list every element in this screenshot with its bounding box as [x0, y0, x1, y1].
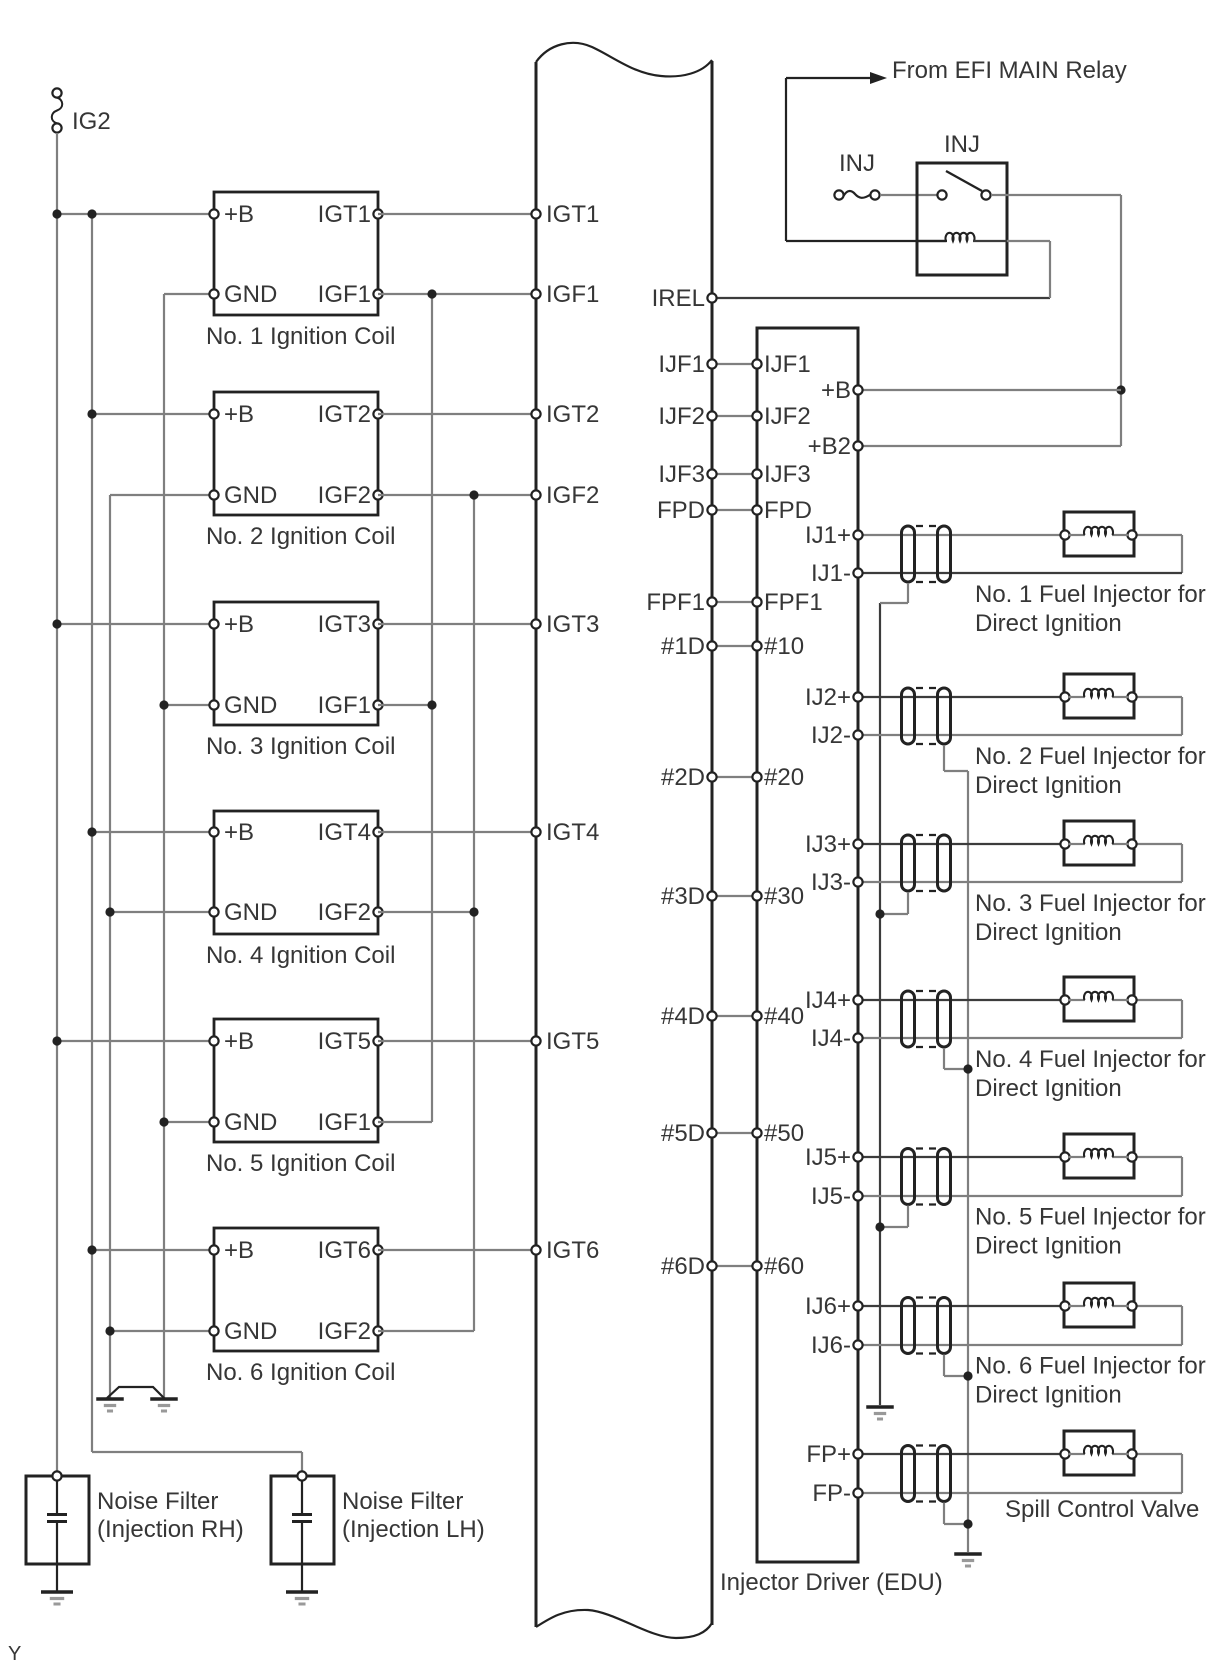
svg-text:IGF2: IGF2: [318, 899, 371, 926]
svg-text:IJ3+: IJ3+: [805, 831, 851, 858]
svg-text:Direct Ignition: Direct Ignition: [975, 1382, 1122, 1409]
wire IJ6- return: [858, 1306, 1182, 1345]
pin IJ6+ EDU: [805, 1293, 863, 1320]
pin GND coil 2: [209, 482, 277, 509]
junction +B coil6 row: [87, 1245, 96, 1254]
pin FPF1 ECM: [646, 589, 716, 616]
wire IG2 vertical bus x=57: [56, 133, 58, 1476]
wire shield drain injector 3: [880, 892, 908, 914]
pin #1D ECM: [661, 633, 717, 660]
wire IJ6+ EDU to load: [858, 1305, 1065, 1307]
label No. 5 Fuel Injector for: [975, 1204, 1206, 1260]
junction IG2/+B node coil1 row: [52, 209, 96, 218]
wire relay switch to +B feed: [991, 195, 1121, 446]
pin IGT2 coil 2: [318, 401, 383, 428]
wire GND from No. 3 Ignition Coil: [164, 704, 214, 706]
pin #3D ECM: [661, 883, 717, 910]
wire FP+ EDU to load: [858, 1453, 1065, 1455]
svg-text:#4D: #4D: [661, 1003, 705, 1030]
svg-text:INJ: INJ: [839, 150, 875, 177]
ignition coil box No. 3 Ignition Coil: [214, 602, 378, 725]
junction shield drain injector 4: [963, 1064, 972, 1073]
pin +B EDU: [821, 377, 863, 404]
svg-text:IJF3: IJF3: [658, 461, 705, 488]
wire +B feed to No. 2 Ignition Coil: [92, 413, 214, 415]
wire shield drain injector 7: [944, 1503, 968, 1525]
pin GND coil 6: [209, 1318, 277, 1345]
wire IGT6 coil to ECM: [378, 1249, 536, 1251]
pin #5D ECM: [661, 1120, 717, 1147]
wire IJ1- return: [858, 535, 1182, 573]
noise filter (Injection RH): [26, 1471, 89, 1591]
svg-text:IJF2: IJF2: [658, 403, 705, 430]
svg-text:INJ: INJ: [944, 131, 980, 158]
pin IGF2 coil 2: [318, 482, 383, 509]
wire #2D ECM to EDU: [712, 776, 757, 778]
wire IGF2 coil6 stub: [378, 1330, 474, 1332]
pin IGT6 coil 6: [318, 1237, 383, 1264]
wire #4D ECM to EDU: [712, 1015, 757, 1017]
svg-text:+B: +B: [224, 611, 254, 638]
wire fuse to relay switch: [880, 194, 937, 196]
wire IJ2- return: [858, 697, 1182, 735]
shielded cable injector 4: [902, 991, 951, 1047]
svg-text:FPD: FPD: [764, 497, 812, 524]
svg-text:IGT5: IGT5: [318, 1028, 371, 1055]
svg-text:#5D: #5D: [661, 1120, 705, 1147]
shielded cable injector 7: [902, 1446, 951, 1502]
pin #6D ECM: [661, 1253, 717, 1280]
svg-text:#3D: #3D: [661, 883, 705, 910]
svg-text:IJF1: IJF1: [658, 351, 705, 378]
svg-text:IJ5+: IJ5+: [805, 1144, 851, 1171]
svg-text:(Injection LH): (Injection LH): [342, 1516, 485, 1543]
svg-text:Direct Ignition: Direct Ignition: [975, 1233, 1122, 1260]
svg-text:IGF1: IGF1: [318, 692, 371, 719]
svg-text:No. 4 Ignition Coil: No. 4 Ignition Coil: [206, 942, 395, 969]
wire IGF2 coil4 stub: [378, 911, 474, 913]
wire shield drain injector 6: [944, 1355, 968, 1377]
junction GND coil4 row: [105, 907, 114, 916]
svg-text:No. 3 Ignition Coil: No. 3 Ignition Coil: [206, 733, 395, 760]
junction GND coil5 row: [159, 1117, 168, 1126]
pin IGT1 ECM: [531, 201, 599, 228]
pin IJ2+ EDU: [805, 684, 863, 711]
pin IJ3- EDU: [811, 869, 863, 896]
wire From EFI MAIN Relay feed: [786, 72, 946, 241]
wire +B feed to No. 4 Ignition Coil: [92, 831, 214, 833]
wire +B2 EDU: [858, 445, 1121, 447]
svg-text:IJ6+: IJ6+: [805, 1293, 851, 1320]
wire IGT4 coil to ECM: [378, 831, 536, 833]
junction +B coil4 row: [87, 827, 96, 836]
svg-text:No. 2 Fuel Injector for: No. 2 Fuel Injector for: [975, 743, 1206, 770]
wire +B feed to No. 1 Ignition Coil: [57, 213, 214, 215]
wire IJ5- return: [858, 1157, 1182, 1196]
pin IJF1 EDU: [752, 351, 810, 378]
svg-text:GND: GND: [224, 692, 277, 719]
junction shield drain injector 5: [875, 1222, 884, 1231]
wire IJF3 ECM to EDU: [712, 473, 757, 475]
pin IGT5 coil 5: [318, 1028, 383, 1055]
svg-text:IJ4-: IJ4-: [811, 1025, 851, 1052]
svg-text:IJ2+: IJ2+: [805, 684, 851, 711]
svg-text:IGF1: IGF1: [546, 281, 599, 308]
ground noise filter LH: [286, 1592, 318, 1604]
wire #5D ECM to EDU: [712, 1132, 757, 1134]
shielded cable injector 3: [902, 835, 951, 891]
svg-text:IJF1: IJF1: [764, 351, 811, 378]
ECM connector bus: [536, 43, 712, 1638]
svg-text:IJ2-: IJ2-: [811, 722, 851, 749]
relay switch contacts: [937, 171, 990, 200]
svg-text:Direct Ignition: Direct Ignition: [975, 919, 1122, 946]
shielded cable injector 1: [902, 526, 951, 582]
wire GND from No. 2 Ignition Coil: [110, 494, 214, 496]
svg-text:FP+: FP+: [806, 1441, 851, 1468]
pin IJ4- EDU: [811, 1025, 863, 1052]
pin #40 EDU: [752, 1003, 804, 1030]
wire IJ2+ EDU to load: [858, 696, 1065, 698]
svg-text:+B: +B: [224, 1028, 254, 1055]
label No. 2 Fuel Injector for: [975, 743, 1206, 799]
svg-text:IGT3: IGT3: [318, 611, 371, 638]
svg-text:From EFI MAIN Relay: From EFI MAIN Relay: [892, 57, 1127, 84]
wire ground bridge: [107, 1387, 164, 1398]
wire shield drain injector 4: [944, 1048, 968, 1069]
svg-text:FPF1: FPF1: [646, 589, 705, 616]
label No. 6 Fuel Injector for: [975, 1353, 1206, 1409]
wire shield drain injector 1: [880, 583, 908, 603]
wire IREL ECM to relay coil: [712, 241, 1050, 298]
injector driver EDU box: [757, 328, 858, 1562]
svg-text:IGF1: IGF1: [318, 281, 371, 308]
pin FPD ECM: [657, 497, 717, 524]
pin IGT4 coil 4: [318, 819, 383, 846]
svg-text:#60: #60: [764, 1253, 804, 1280]
svg-text:IGT2: IGT2: [318, 401, 371, 428]
pin GND coil 1: [209, 281, 277, 308]
pin IJF3 ECM: [658, 461, 716, 488]
ignition coil box No. 6 Ignition Coil: [214, 1228, 378, 1351]
label No. 3 Ignition Coil: [206, 733, 395, 760]
shielded cable injector 5: [902, 1149, 951, 1205]
wire +B vertical bus x=92: [92, 214, 302, 1476]
pin GND coil 3: [209, 692, 277, 719]
wire FPD ECM to EDU: [712, 509, 757, 511]
ground noise filter RH: [41, 1592, 73, 1604]
wire IGT5 coil to ECM: [378, 1040, 536, 1042]
wire GND vertical bus x=164 (coils 1,3,5): [163, 294, 165, 1398]
svg-text:+B: +B: [821, 377, 851, 404]
svg-text:Injector Driver (EDU): Injector Driver (EDU): [720, 1569, 943, 1596]
label From EFI MAIN Relay: [892, 57, 1127, 84]
ground shield drain bus x=968: [954, 1554, 982, 1566]
pin #30 EDU: [752, 883, 804, 910]
wire GND vertical bus x=110 (coils 2,4,6): [109, 495, 111, 1398]
pin #50 EDU: [752, 1120, 804, 1147]
label No. 4 Fuel Injector for: [975, 1046, 1206, 1102]
wire +B EDU: [858, 389, 1121, 391]
svg-text:No. 5 Ignition Coil: No. 5 Ignition Coil: [206, 1150, 395, 1177]
svg-text:Direct Ignition: Direct Ignition: [975, 1075, 1122, 1102]
pin IJ6- EDU: [811, 1332, 863, 1359]
svg-text:GND: GND: [224, 899, 277, 926]
pin IGT1 coil 1: [318, 201, 383, 228]
ignition coil box No. 2 Ignition Coil: [214, 392, 378, 515]
label Noise Filter (Injection RH): [97, 1488, 244, 1543]
pin IGF1 coil 1: [318, 281, 383, 308]
svg-text:Direct Ignition: Direct Ignition: [975, 610, 1122, 637]
svg-text:IJF3: IJF3: [764, 461, 811, 488]
pin FPD EDU: [752, 497, 812, 524]
svg-text:+B: +B: [224, 1237, 254, 1264]
wire +B feed to No. 5 Ignition Coil: [57, 1040, 214, 1042]
svg-text:FPF1: FPF1: [764, 589, 823, 616]
wire #3D ECM to EDU: [712, 895, 757, 897]
svg-text:#30: #30: [764, 883, 804, 910]
svg-text:IG2: IG2: [72, 108, 111, 135]
fuse INJ: [834, 190, 879, 199]
svg-text:No. 6 Fuel Injector for: No. 6 Fuel Injector for: [975, 1353, 1206, 1380]
svg-text:IJ3-: IJ3-: [811, 869, 851, 896]
pin IJ3+ EDU: [805, 831, 863, 858]
relay coil: [917, 233, 1050, 241]
shielded cable injector 6: [902, 1298, 951, 1354]
wire +B feed to No. 6 Ignition Coil: [92, 1249, 214, 1251]
pin +B coil 2: [209, 401, 254, 428]
svg-text:#10: #10: [764, 633, 804, 660]
svg-text:IGF2: IGF2: [546, 482, 599, 509]
junction IGF1 node coil3: [427, 700, 436, 709]
wire IGT1 coil to ECM: [378, 213, 536, 215]
label No. 6 Ignition Coil: [206, 1359, 395, 1386]
wire #1D ECM to EDU: [712, 645, 757, 647]
svg-text:IJ6-: IJ6-: [811, 1332, 851, 1359]
ground coils LH bank: [96, 1399, 124, 1411]
pin IJF1 ECM: [658, 351, 716, 378]
pin IGT4 ECM: [531, 819, 599, 846]
svg-text:#50: #50: [764, 1120, 804, 1147]
svg-text:IJ4+: IJ4+: [805, 987, 851, 1014]
wire IJF1 ECM to EDU: [712, 363, 757, 365]
ground coils RH bank: [150, 1399, 178, 1411]
svg-text:Spill Control Valve: Spill Control Valve: [1005, 1496, 1199, 1523]
ignition coil box No. 5 Ignition Coil: [214, 1019, 378, 1142]
junction IGF1 node coil1: [427, 289, 436, 298]
svg-text:GND: GND: [224, 482, 277, 509]
wire #6D ECM to EDU: [712, 1265, 757, 1267]
pin IJF3 EDU: [752, 461, 810, 488]
fuel injector 6 box: [1060, 1283, 1136, 1327]
svg-text:+B: +B: [224, 201, 254, 228]
wire IGT3 coil to ECM: [378, 623, 536, 625]
svg-text:Direct Ignition: Direct Ignition: [975, 772, 1122, 799]
pin IGF1 coil 5: [318, 1109, 383, 1136]
label No. 2 Ignition Coil: [206, 523, 395, 550]
ground shield drain bus x=880: [866, 1407, 894, 1419]
label No. 5 Ignition Coil: [206, 1150, 395, 1177]
wire shield drain injector 2: [944, 745, 968, 771]
label Y page marker: [8, 1643, 21, 1665]
pin +B coil 4: [209, 819, 254, 846]
svg-text:#2D: #2D: [661, 764, 705, 791]
svg-text:No. 5 Fuel Injector for: No. 5 Fuel Injector for: [975, 1204, 1206, 1231]
pin IJ1- EDU: [811, 560, 863, 587]
pin GND coil 4: [209, 899, 277, 926]
svg-text:FPD: FPD: [657, 497, 705, 524]
pin +B coil 6: [209, 1237, 254, 1264]
pin IREL ECM: [652, 285, 717, 312]
pin IJ2- EDU: [811, 722, 863, 749]
junction GND coil3 row: [159, 700, 168, 709]
label INJ relay: [944, 131, 980, 158]
pin IGT3 coil 3: [318, 611, 383, 638]
label No. 1 Ignition Coil: [206, 323, 395, 350]
pin +B coil 3: [209, 611, 254, 638]
pin GND coil 5: [209, 1109, 277, 1136]
svg-text:IGT6: IGT6: [318, 1237, 371, 1264]
wire shield drain injector 5: [880, 1206, 908, 1228]
pin IGF2 coil 4: [318, 899, 383, 926]
wire IJ4- return: [858, 1000, 1182, 1038]
svg-text:IGF1: IGF1: [318, 1109, 371, 1136]
wire IGF2 coil2 to ECM: [378, 494, 536, 496]
svg-text:IGF2: IGF2: [318, 482, 371, 509]
junction shield drain injector 3: [875, 909, 884, 918]
svg-text:IGT1: IGT1: [546, 201, 599, 228]
label INJ fuse: [839, 150, 875, 177]
svg-text:#40: #40: [764, 1003, 804, 1030]
wire shield drain bus x=880: [879, 603, 881, 1405]
wire IGF1 coil5 stub: [378, 1121, 432, 1123]
svg-text:IJ1+: IJ1+: [805, 522, 851, 549]
spill control valve box: [1060, 1431, 1136, 1475]
pin IGF1 coil 3: [318, 692, 383, 719]
label Noise Filter (Injection LH): [342, 1488, 485, 1543]
relay INJ box: [917, 163, 1007, 275]
junction IG2 coil3 row: [52, 619, 61, 628]
fuel injector 2 box: [1060, 674, 1136, 718]
junction shield drain injector 6: [963, 1371, 972, 1380]
svg-text:No. 1 Fuel Injector for: No. 1 Fuel Injector for: [975, 581, 1206, 608]
svg-text:#1D: #1D: [661, 633, 705, 660]
wire FPF1 ECM to EDU: [712, 601, 757, 603]
svg-text:IGT3: IGT3: [546, 611, 599, 638]
wire GND from No. 4 Ignition Coil: [110, 911, 214, 913]
svg-text:+B: +B: [224, 819, 254, 846]
shielded cable injector 2: [902, 688, 951, 744]
fuel injector 1 box: [1060, 512, 1136, 556]
svg-text:IGF2: IGF2: [318, 1318, 371, 1345]
pin #4D ECM: [661, 1003, 717, 1030]
noise filter (Injection LH): [271, 1471, 334, 1591]
wire IGF1 coil1 to ECM: [378, 293, 536, 295]
svg-text:IREL: IREL: [652, 285, 705, 312]
label Injector Driver (EDU): [720, 1569, 943, 1596]
pin IGF1 ECM: [531, 281, 599, 308]
svg-text:+B2: +B2: [808, 433, 851, 460]
wire shield drain bus x=968: [967, 771, 969, 1552]
svg-text:FP-: FP-: [812, 1480, 851, 1507]
svg-text:No. 3 Fuel Injector for: No. 3 Fuel Injector for: [975, 890, 1206, 917]
wire IJ1+ EDU to load: [858, 534, 1065, 536]
svg-text:IJ1-: IJ1-: [811, 560, 851, 587]
junction shield drain injector 7: [963, 1519, 972, 1528]
svg-text:IGT4: IGT4: [546, 819, 599, 846]
svg-text:GND: GND: [224, 1109, 277, 1136]
junction IG2 coil5 row: [52, 1036, 61, 1045]
pin +B coil 5: [209, 1028, 254, 1055]
wire IJ3- return: [858, 844, 1182, 882]
label IG2: [72, 108, 111, 135]
wire IJ4+ EDU to load: [858, 999, 1065, 1001]
svg-text:IGT5: IGT5: [546, 1028, 599, 1055]
junction GND coil6 row: [105, 1326, 114, 1335]
wire FP- return: [858, 1454, 1182, 1493]
pin IGT2 ECM: [531, 401, 599, 428]
svg-text:#20: #20: [764, 764, 804, 791]
svg-text:Noise Filter: Noise Filter: [97, 1488, 218, 1515]
wire GND from No. 5 Ignition Coil: [164, 1121, 214, 1123]
wire +B feed to No. 3 Ignition Coil: [57, 623, 214, 625]
pin IGT6 ECM: [531, 1237, 599, 1264]
pin IJ4+ EDU: [805, 987, 863, 1014]
pin FP- EDU: [812, 1480, 862, 1507]
pin #10 EDU: [752, 633, 804, 660]
pin +B2 EDU: [808, 433, 863, 460]
label No. 1 Fuel Injector for: [975, 581, 1206, 637]
svg-text:#6D: #6D: [661, 1253, 705, 1280]
pin IGF2 ECM: [531, 482, 599, 509]
svg-text:Noise Filter: Noise Filter: [342, 1488, 463, 1515]
svg-text:No. 4 Fuel Injector for: No. 4 Fuel Injector for: [975, 1046, 1206, 1073]
pin IJF2 EDU: [752, 403, 810, 430]
pin FPF1 EDU: [752, 589, 822, 616]
pin IGT5 ECM: [531, 1028, 599, 1055]
pin IJ1+ EDU: [805, 522, 863, 549]
fuel injector 4 box: [1060, 977, 1136, 1021]
svg-text:No. 6 Ignition Coil: No. 6 Ignition Coil: [206, 1359, 395, 1386]
label No. 3 Fuel Injector for: [975, 890, 1206, 946]
pin IJF2 ECM: [658, 403, 716, 430]
svg-text:IGT1: IGT1: [318, 201, 371, 228]
wire IGT2 coil to ECM: [378, 413, 536, 415]
wire IJ3+ EDU to load: [858, 843, 1065, 845]
label No. 4 Ignition Coil: [206, 942, 395, 969]
wire GND from No. 1 Ignition Coil: [164, 293, 214, 295]
pin FP+ EDU: [806, 1441, 862, 1468]
label Spill Control Valve: [1005, 1496, 1199, 1523]
svg-text:IGT2: IGT2: [546, 401, 599, 428]
svg-text:GND: GND: [224, 281, 277, 308]
fuel injector 5 box: [1060, 1134, 1136, 1178]
pin #60 EDU: [752, 1253, 804, 1280]
svg-text:IJ5-: IJ5-: [811, 1183, 851, 1210]
pin IGF2 coil 6: [318, 1318, 383, 1345]
svg-text:IJF2: IJF2: [764, 403, 811, 430]
svg-text:+B: +B: [224, 401, 254, 428]
wire IJF2 ECM to EDU: [712, 415, 757, 417]
fuse IG2: [52, 88, 63, 132]
svg-text:Y: Y: [8, 1643, 21, 1665]
svg-text:IGT4: IGT4: [318, 819, 371, 846]
wire IJ5+ EDU to load: [858, 1156, 1065, 1158]
wire IGF2 net vertical x=474: [473, 495, 475, 1331]
junction +B coil2 row: [87, 409, 96, 418]
pin IJ5- EDU: [811, 1183, 863, 1210]
junction IGF2 node coil2: [469, 490, 478, 499]
